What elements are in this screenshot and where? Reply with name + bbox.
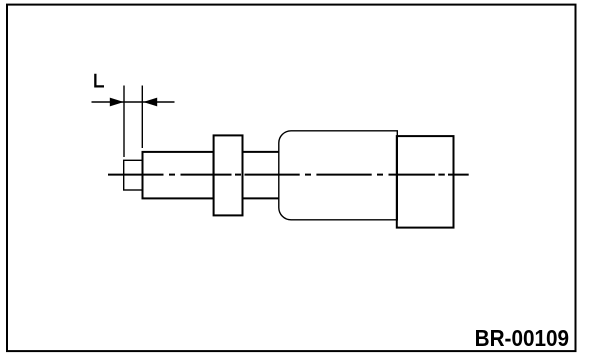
neck bottom line — [243, 197, 280, 199]
pilot tip rectangle — [124, 160, 143, 190]
centerline dash 3 — [245, 174, 300, 176]
centerline dash 4 — [316, 174, 371, 176]
hex flange rectangle — [214, 135, 243, 215]
centerline dot 3 — [305, 174, 311, 176]
extension line right — [141, 86, 143, 149]
arrowhead left — [110, 98, 124, 107]
centerline dash 5 — [389, 174, 435, 176]
arrowhead right — [143, 98, 157, 107]
threaded shaft rectangle — [143, 152, 214, 199]
label L — [94, 74, 104, 88]
centerline dash 1 — [108, 174, 164, 176]
centerline dash 6 — [448, 174, 469, 176]
extension line left — [123, 86, 125, 158]
centerline dot 4 — [377, 174, 383, 176]
neck top line — [243, 151, 280, 153]
dimension line — [92, 101, 175, 103]
svg-text:BR-00109: BR-00109 — [475, 325, 569, 351]
end block rectangle — [397, 136, 454, 228]
centerline dot 5 — [438, 174, 444, 176]
rounded body — [279, 131, 398, 220]
centerline dot 1 — [169, 174, 175, 176]
centerline dash 2 — [181, 174, 232, 176]
centerline dot 2 — [235, 174, 241, 176]
